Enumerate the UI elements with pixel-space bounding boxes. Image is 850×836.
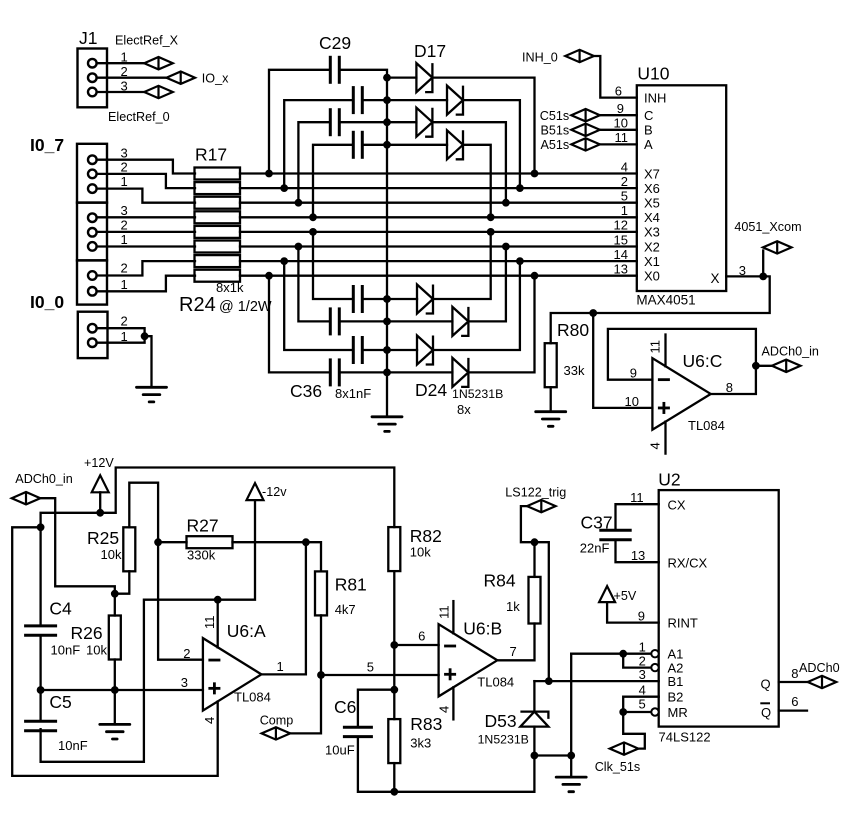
wire +12V outer loop to U6:A pin4 [12,527,218,776]
junction +12V [96,509,104,517]
wire C36b to bus [339,320,387,322]
svg-text:8x: 8x [457,402,471,417]
wire IO line 7 (R17-7 to U10 X1) [240,260,637,262]
svg-text:R24: R24 [179,294,216,316]
junction dots row1 [265,170,273,178]
wire D24d right leg [468,276,534,373]
capacitor C36b [330,307,339,335]
connector pins section2 [88,213,97,222]
diode D17d [447,130,463,159]
net flag B51s [571,124,600,136]
diode D17c [416,108,432,137]
svg-text:3: 3 [181,675,188,690]
svg-text:11: 11 [615,130,629,145]
wire C51s to U10 pin9 [600,114,637,116]
junction inverting node R27 [154,538,162,546]
wire prot row D left leg [313,145,353,218]
svg-text:MAX4051: MAX4051 [636,293,695,308]
wire +12V feed [41,468,395,528]
capacitor C36d [330,358,339,386]
svg-text:B2: B2 [668,690,684,705]
svg-text:CX: CX [668,498,686,513]
svg-text:ElectRef_X: ElectRef_X [115,34,179,48]
wire IO line 1 (R17-1 to U10 X7) [240,172,637,174]
svg-text:1N5231B: 1N5231B [452,387,503,401]
svg-text:2: 2 [121,261,128,276]
svg-text:C36: C36 [290,381,322,401]
capacitor C36a [353,285,362,313]
op-amp U6:C TL084 [652,358,710,430]
svg-text:TL084: TL084 [234,690,271,705]
ground under R26 [114,690,116,724]
wire +12V to C4 [39,527,41,626]
svg-text:ADCh0_in: ADCh0_in [762,345,819,359]
wire R25 bottom to divider node [115,571,130,593]
svg-text:X3: X3 [644,225,660,240]
svg-text:4: 4 [648,442,663,449]
wire R26 to ground node [114,660,116,691]
resistor R80 33k [545,343,557,387]
wire R84 top stem [533,542,535,577]
svg-text:Q: Q [761,705,771,720]
svg-text:13: 13 [614,262,628,277]
capacitor C29b [353,86,362,114]
wire R80 to ground [550,387,552,412]
wire U6:C feedback loop [608,329,756,394]
svg-text:A1: A1 [668,647,684,662]
svg-text:1: 1 [121,50,128,65]
wire B2 to MR link [623,697,659,712]
svg-text:8x1k: 8x1k [216,280,244,295]
svg-text:2: 2 [121,160,128,175]
wire prot row F left leg [298,247,330,322]
svg-text:33k: 33k [564,363,585,378]
svg-text:R25: R25 [87,528,119,548]
svg-text:330k: 330k [187,548,216,563]
wire to ground jog [145,336,152,387]
diode D17b [447,86,463,115]
wire IO line 5 (R17-5 to U10 X3) [240,231,637,233]
wire protection ground bus [386,78,388,417]
wire D53 top stem [533,681,535,712]
svg-text:R82: R82 [410,526,442,546]
svg-text:X6: X6 [644,181,660,196]
svg-text:13: 13 [631,548,645,563]
capacitor C29a [330,56,339,84]
svg-text:7: 7 [510,644,517,659]
svg-text:R83: R83 [410,714,442,734]
U2 pin2 A2 bubble [651,664,658,671]
wire D53 bottom to ground rail [533,727,535,756]
junction pin6 node [390,641,398,649]
svg-text:4: 4 [621,159,628,174]
svg-text:B1: B1 [668,674,684,689]
wire IO line 2 (R17-2 to U10 X6) [240,187,637,189]
junction dots row3 [295,199,303,207]
svg-text:15: 15 [614,232,628,247]
wire A1 from ground leg [571,653,651,655]
svg-text:I0_0: I0_0 [30,292,64,312]
svg-text:X2: X2 [644,239,660,254]
wire R82 bottom to pin6 [393,572,395,645]
svg-text:3: 3 [121,78,128,93]
svg-text:A: A [644,137,653,152]
svg-text:LS122_trig: LS122_trig [505,486,566,500]
wire D17a right leg [432,78,534,174]
svg-text:10nF: 10nF [58,738,88,753]
junction R81-pin5-Comp [317,671,325,679]
resistor R83 3k3 [393,690,395,719]
junction ground rail [567,752,575,760]
wire conn s2 pin3 to R17-4 [97,216,195,218]
wire conn s2 pin2 to R17-5 [97,231,195,233]
wire J1 pin1 to ElectRef_X [97,62,145,64]
wire C29d to bus [362,144,387,146]
svg-text:11: 11 [630,490,644,505]
wire D17c right leg [432,122,506,203]
wire IO line 8 (R17-8 to U10 X0) [240,275,637,277]
wire C36d to bus [339,371,387,373]
wire D24b right leg [468,247,506,322]
junction A1-A2 [619,650,627,658]
svg-text:C51s: C51s [540,109,569,123]
svg-text:TL084: TL084 [477,675,514,690]
svg-text:1: 1 [121,277,128,292]
svg-text:C37: C37 [581,513,613,533]
junction R80 node to U6:C [589,309,597,317]
svg-text:11: 11 [648,340,663,354]
svg-text:U6:B: U6:B [463,619,502,639]
svg-text:3k3: 3k3 [410,736,431,751]
U6:B pin 11 stub [452,601,454,633]
wire X output to R80 node [551,276,770,343]
diode D24a [417,285,433,314]
power -12v arrow [247,483,264,500]
svg-text:ElectRef_0: ElectRef_0 [108,110,170,124]
U6:C pin 4 stub [664,422,666,454]
U6:C pin 11 stub [664,335,666,367]
wire conn s1 pin2 to R17-2 [97,174,195,188]
wire B51s to U10 pin10 [600,129,637,131]
diode D24b [452,307,468,336]
wire bus to D24d [387,371,452,373]
wire D24a right leg [433,232,491,299]
junction D53 ground rail [531,752,539,760]
wire bus to D17d [387,144,447,146]
svg-text:4: 4 [639,683,646,698]
wire prot row H left leg [269,276,330,373]
svg-text:4: 4 [437,706,452,713]
net flag C51s [571,109,600,121]
resistor R27 330k [187,536,233,548]
svg-text:B51s: B51s [540,124,569,138]
ground bottom right [570,756,572,778]
svg-text:1: 1 [121,232,128,247]
svg-text:5: 5 [638,697,645,712]
svg-text:RX/CX: RX/CX [668,556,708,571]
junction bus rowC [383,118,391,126]
svg-text:X4: X4 [644,210,660,225]
connector I0_7..I0_0 block [77,144,107,203]
svg-text:X0: X0 [644,269,660,284]
svg-text:4k7: 4k7 [335,602,356,617]
net flag A51s [571,138,600,150]
ground protection bus [372,417,402,432]
junction C4-C5 [37,686,45,694]
wire IO line 3 (R17-3 to U10 X5) [240,202,637,204]
wire C36a to bus [362,298,387,300]
wire +5V to RINT pin9 [607,602,659,623]
svg-text:1: 1 [621,203,628,218]
junction bus rowD [383,141,391,149]
svg-text:R17: R17 [195,145,227,165]
net flag ADCh0_in (top) [756,365,772,367]
svg-text:C6: C6 [334,697,356,717]
svg-text:D24: D24 [415,380,447,400]
svg-text:8x1nF: 8x1nF [335,386,371,401]
wire C6 bottom rail [358,737,535,792]
junction dots row5 [309,228,317,236]
junction R84 top [531,538,539,546]
junction dots row6 [295,243,303,251]
ground under connector [137,387,167,402]
svg-text:1: 1 [121,174,128,189]
svg-text:R80: R80 [557,320,589,340]
wire conn s3 pin2 to R17-7 [97,261,195,275]
svg-text:5: 5 [367,660,374,675]
ground under R80 [536,412,566,427]
svg-text:MR: MR [668,705,688,720]
wire prot row B left leg [284,100,353,188]
resistor R26 10k [114,594,116,616]
svg-text:C4: C4 [49,599,72,619]
junction output feedback node [302,538,310,546]
junction bus rowG [383,346,391,354]
diode D17a [416,63,432,92]
net flag ADCh0 [808,676,837,688]
svg-text:1: 1 [277,659,284,674]
wire ADCh0_in down to divider [41,498,115,594]
junction MR node [619,708,627,716]
wire R83 bottom [393,763,395,792]
wire prot row E left leg [313,232,353,299]
capacitor C37 22nF [616,504,659,530]
junction C6-R83 node [390,686,398,694]
svg-text:R26: R26 [71,623,103,643]
svg-text:R84: R84 [484,571,516,591]
wire pin6 inverting input [394,644,438,646]
svg-text:ADCh0: ADCh0 [799,661,840,675]
svg-text:+12V: +12V [84,456,114,470]
svg-text:12: 12 [614,218,628,233]
svg-text:2: 2 [121,218,128,233]
resistor R82 10k [388,527,400,571]
svg-text:D53: D53 [485,711,517,731]
svg-text:U6:A: U6:A [227,621,266,641]
wire B1 line to U2 [534,680,658,682]
op-amp U6:B TL084 [439,624,498,696]
svg-text:8: 8 [791,666,798,681]
svg-text:-12v: -12v [262,485,287,499]
svg-text:10k: 10k [86,643,107,658]
junction divider node [111,590,119,598]
svg-text:8: 8 [726,380,733,395]
svg-text:4051_Xcom: 4051_Xcom [734,220,801,234]
net flag Clk_51s [610,742,639,754]
junction R83 bottom rail [390,788,398,796]
svg-text:6: 6 [418,629,425,644]
svg-text:11: 11 [202,616,217,630]
wire prot row A left leg [269,70,330,174]
svg-text:+5V: +5V [614,589,637,603]
resistor R81 4k7 [315,571,327,615]
svg-text:1N5231B: 1N5231B [478,733,529,747]
svg-text:6: 6 [791,694,798,709]
wire pin3 noninverting input [41,689,203,691]
junction X output [759,273,767,281]
wire LS122_trig jog to R84 top and B1 [521,506,549,681]
net flag ADCh0_in (bottom input) [12,492,41,504]
junction dots row8 [265,272,273,280]
svg-text:I0_7: I0_7 [30,135,64,155]
U6:B pin 4 stub [452,687,454,719]
capacitor C29d [353,131,362,159]
wire bus to D17c [387,121,416,123]
wire A2 link [623,654,651,668]
U2 pin1 A1 bubble [651,650,658,657]
wire ground rail right [534,754,571,756]
connector grounded 2-pin [78,312,108,358]
wire IO line 6 (R17-6 to U10 X2) [240,245,637,247]
svg-text:X5: X5 [644,196,660,211]
svg-text:J1: J1 [79,28,97,48]
svg-text:3: 3 [639,667,646,682]
svg-text:3: 3 [739,263,746,278]
wire -12v to U6:A pin11 [218,500,255,600]
wire U6:A output [261,542,306,674]
ic U10 MAX4051 [637,85,726,291]
junction bus rowE [383,295,391,303]
net flag INH_0 [565,50,594,62]
junction bus rowH [383,369,391,377]
wire D17d right leg [463,145,491,218]
power +12V arrow [92,475,109,492]
wire conn s3 pin1 to R17-8 [97,276,195,292]
svg-text:10: 10 [625,394,639,409]
junction R26-ground [111,686,119,694]
svg-text:INH: INH [644,91,666,106]
U6:A pin 11 stem [217,600,219,648]
svg-text:R27: R27 [187,516,219,536]
capacitor C29c [330,108,339,136]
svg-text:10nF: 10nF [51,643,81,658]
junction dots row4 [309,213,317,221]
resistor R25 10k [123,527,135,571]
net flag LS122_trig [527,500,556,512]
wire bus to D24a [387,298,417,300]
capacitor C5 10nF [39,690,41,720]
svg-text:2: 2 [183,646,190,661]
wire pin10 to noninverting input [593,313,652,408]
wire INH_0 to U10 INH pin6 [594,56,637,98]
junction LS122 to B1 wire [545,677,553,685]
svg-text:C29: C29 [319,33,351,53]
svg-text:6: 6 [615,84,622,99]
svg-text:X1: X1 [644,254,660,269]
svg-text:U6:C: U6:C [683,351,723,371]
net flag ElectRef_X [144,57,173,69]
svg-text:10k: 10k [101,547,122,562]
svg-text:5: 5 [621,189,628,204]
svg-text:INH_0: INH_0 [522,51,558,65]
svg-text:22nF: 22nF [580,541,610,556]
connector pins section3 [88,271,97,280]
wire bus to D24b [387,320,452,322]
wire conn s2 pin1 to R17-6 [97,245,195,247]
svg-text:3: 3 [121,203,128,218]
svg-text:11: 11 [437,605,452,619]
wire R25 top jog to inverting node [129,483,203,660]
svg-text:C: C [644,108,653,123]
svg-text:1k: 1k [506,599,520,614]
junction U6:C output to ADCh0_in [752,362,760,370]
net flag Comp [290,675,321,733]
U2 pin5 MR bubble [651,708,658,715]
connector pins section1 [88,155,97,164]
wire C29a to bus [339,70,387,78]
svg-text:9: 9 [638,609,645,624]
svg-text:U2: U2 [658,470,680,490]
capacitor C4 10nF [24,626,57,635]
svg-text:10uF: 10uF [325,743,355,758]
wire prot row C left leg [298,122,330,203]
svg-text:2: 2 [121,64,128,79]
wire pin5 noninverting [321,674,439,676]
svg-text:Clk_51s: Clk_51s [595,760,641,774]
svg-text:4: 4 [202,717,217,724]
wire MR pin5 [623,711,651,713]
svg-text:1: 1 [639,640,646,655]
svg-text:X7: X7 [644,166,660,181]
svg-text:A51s: A51s [540,138,569,152]
net flag ElectRef_0 [144,86,173,98]
junction conn-gnd [141,332,149,340]
wire MR to Clk_51s [623,712,645,749]
svg-text:X: X [711,271,720,286]
svg-text:D17: D17 [414,41,446,61]
wire C5 to -12v loop [41,600,218,762]
wire D17b right leg [463,100,520,188]
wire R81 bottom to U6:B pin5 [320,615,322,675]
wire grounded connector pins [97,328,145,343]
svg-text:U10: U10 [637,64,669,84]
svg-text:RINT: RINT [668,616,698,631]
svg-text:2: 2 [621,174,628,189]
svg-text:3: 3 [121,146,128,161]
svg-text:C5: C5 [49,692,71,712]
wire R82 chain down to C6/R83 [393,645,395,690]
junction bus rowB [383,96,391,104]
junction bus rowA [383,74,391,82]
wire conn s1 pin1 to R17-3 [97,189,195,203]
wire bus to D24c [387,349,417,351]
junction pin11 node [214,596,222,604]
svg-text:2: 2 [121,314,128,329]
junction dots row7 [280,257,288,265]
wire J1 pin2 to IO_x [97,77,167,79]
wire conn s1 pin3 to R17-1 [97,160,195,174]
svg-text:Comp: Comp [260,714,294,728]
